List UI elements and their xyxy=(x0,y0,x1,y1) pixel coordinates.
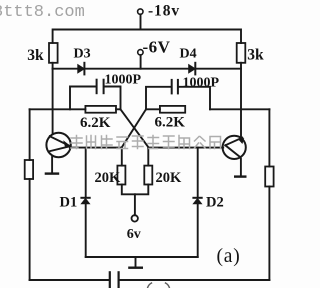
svg-text:D3: D3 xyxy=(74,47,91,62)
svg-text:(a): (a) xyxy=(217,246,241,267)
wire D2 branch xyxy=(197,148,199,197)
capacitor C2 1000P right xyxy=(146,80,210,109)
transistor Q1 xyxy=(46,133,70,173)
wire 3k right to -6V rail xyxy=(240,63,242,69)
label 3k right xyxy=(247,46,264,63)
capacitor C3 bottom xyxy=(110,272,119,287)
resistor R 6.2K right xyxy=(160,106,185,113)
label 3k left xyxy=(27,47,44,64)
svg-text:20K: 20K xyxy=(95,170,122,186)
cut caption bottom center xyxy=(148,283,170,288)
svg-text:20K: 20K xyxy=(156,170,183,186)
svg-text:6v: 6v xyxy=(127,227,141,242)
wire right outer to bottom rail xyxy=(268,187,270,281)
wire D1 to bottom xyxy=(85,204,87,257)
label 1000P left xyxy=(105,73,142,88)
svg-text:D1: D1 xyxy=(60,195,78,211)
wire 20K right branch xyxy=(147,148,149,166)
resistor R 3k right xyxy=(237,43,246,63)
svg-text:3k: 3k xyxy=(27,47,44,64)
ground emitter Q1 xyxy=(46,172,58,174)
wire left base node xyxy=(30,108,86,110)
svg-text:-18v: -18v xyxy=(148,3,180,20)
resistor R left outer xyxy=(25,160,33,179)
svg-text:-6V: -6V xyxy=(143,37,171,56)
wire left outer to bottom rail xyxy=(29,179,31,280)
svg-text:D2: D2 xyxy=(206,195,224,211)
wire 3k left to -6V rail xyxy=(52,63,54,69)
label -6V xyxy=(143,37,171,56)
diode D1 xyxy=(81,198,89,204)
wire right collector drop xyxy=(240,69,242,137)
wire 6v stem xyxy=(134,194,136,215)
wire -6V rail xyxy=(53,68,241,70)
resistor R 20K right xyxy=(144,166,152,185)
label 6.2K left xyxy=(80,115,111,131)
label 6v xyxy=(127,227,141,242)
ground emitter Q2 xyxy=(235,175,245,177)
power terminal -6V xyxy=(138,50,143,69)
watermark 8ttt8.com xyxy=(0,3,85,22)
wire base line right xyxy=(148,147,223,149)
label D4 xyxy=(180,47,197,62)
wire left collector drop xyxy=(52,69,54,134)
resistor R 6.2K left xyxy=(85,106,116,113)
wire 20K left to join xyxy=(122,185,149,195)
resistor R right outer xyxy=(265,167,273,187)
power terminal -18v xyxy=(138,9,143,30)
wire cross diagonal right-to-left xyxy=(122,109,146,147)
wire right base node xyxy=(210,108,269,110)
watermark hangzhou company text xyxy=(71,136,221,149)
wire 6.2K right to junction xyxy=(146,108,160,110)
ground xyxy=(129,257,141,268)
wire 20K left branch xyxy=(121,148,123,166)
label D2 xyxy=(206,195,224,211)
resistor R 20K left xyxy=(117,166,125,185)
label 20K right xyxy=(156,170,183,186)
svg-text:6.2K: 6.2K xyxy=(80,115,111,131)
svg-text:3k: 3k xyxy=(247,46,264,63)
wire bottom rail left xyxy=(30,279,110,281)
transistor Q2 xyxy=(223,136,246,176)
svg-text:1000P: 1000P xyxy=(105,73,142,88)
wire D2 to bottom xyxy=(197,204,199,257)
svg-text:D4: D4 xyxy=(180,47,197,62)
diode D2 xyxy=(193,198,201,204)
diode D4 xyxy=(189,63,196,75)
wire D1 branch xyxy=(85,148,87,197)
wire left outer drop xyxy=(29,109,31,160)
power terminal 6v xyxy=(132,215,138,221)
label 6.2K right xyxy=(155,115,186,131)
label (a) xyxy=(217,246,241,267)
label 1000P right xyxy=(183,76,220,91)
wire bottom rail right xyxy=(119,279,269,281)
wire inner bottom line xyxy=(86,256,198,258)
svg-text:1000P: 1000P xyxy=(183,76,220,91)
wire base line left xyxy=(70,147,122,149)
svg-text:8ttt8.com: 8ttt8.com xyxy=(0,3,85,22)
svg-text:6.2K: 6.2K xyxy=(155,115,186,131)
label D1 xyxy=(60,195,78,211)
diode D3 xyxy=(78,63,85,75)
wire top rail xyxy=(53,30,241,44)
resistor R 3k left xyxy=(49,43,58,63)
label 20K left xyxy=(95,170,122,186)
wire cross diagonal left-to-right xyxy=(121,109,149,147)
label -18v xyxy=(148,3,180,20)
capacitor C1 1000P left xyxy=(70,80,121,110)
wire right outer drop xyxy=(268,109,270,166)
wire 6.2K left to junction xyxy=(116,108,121,110)
label D3 xyxy=(74,47,91,62)
